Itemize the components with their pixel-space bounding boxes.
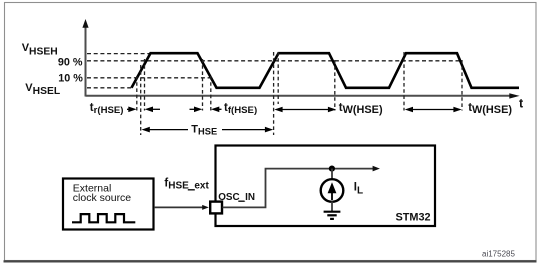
svg-text:90 %: 90 % xyxy=(58,57,83,69)
dashed marker rise2 90% (THSE right, tW left) xyxy=(273,52,275,135)
svg-text:ai175285: ai175285 xyxy=(482,249,515,258)
svg-text:tf(HSE): tf(HSE) xyxy=(224,102,257,116)
y-axis (voltage axis) xyxy=(82,19,88,97)
dashed level line VHSEH xyxy=(87,53,150,55)
dashed level line 10% xyxy=(87,77,212,79)
STM32 box xyxy=(216,146,436,227)
x-axis (time axis) xyxy=(86,93,520,98)
tW dimension arrow 2 xyxy=(405,107,462,113)
tr dimension arrows xyxy=(127,107,160,113)
THSE dimension arrow xyxy=(142,121,274,136)
dashed level line 90% xyxy=(87,60,461,62)
svg-text:OSC_IN: OSC_IN xyxy=(218,192,255,203)
square wave symbol xyxy=(72,214,135,222)
ground symbol xyxy=(324,212,341,219)
external clock source box xyxy=(63,179,154,230)
dashed marker rise1 mid (THSE left) xyxy=(140,65,142,135)
svg-text:tW(HSE): tW(HSE) xyxy=(339,102,383,116)
wire from clock source to OSC_IN with arrowhead xyxy=(154,205,209,210)
internal wire from OSC_IN up and right with arrowhead xyxy=(223,166,380,208)
dashed marker fall1 90% xyxy=(202,59,204,111)
wire junction to current source xyxy=(331,169,333,180)
svg-text:clock source: clock source xyxy=(73,192,132,204)
svg-text:fHSE_ext: fHSE_ext xyxy=(164,178,209,192)
dashed marker fall1 10% xyxy=(210,76,212,111)
dashed marker rise1 10% xyxy=(136,76,138,111)
dashed level line VHSEL xyxy=(87,87,133,89)
dashed marker fall3 90% xyxy=(461,60,463,111)
junction node dot xyxy=(329,166,335,172)
dashed marker fall2 90% xyxy=(334,60,336,111)
svg-text:tr(HSE): tr(HSE) xyxy=(90,102,124,116)
HSE clock waveform xyxy=(132,53,520,88)
tW dimension arrow 1 xyxy=(274,107,336,113)
dashed marker rise1 90% xyxy=(144,59,146,111)
svg-text:tW(HSE): tW(HSE) xyxy=(468,102,512,116)
wire current source to ground xyxy=(331,202,333,212)
dashed marker rise2 top xyxy=(277,52,279,104)
tf dimension arrows xyxy=(190,107,222,113)
svg-text:STM32: STM32 xyxy=(396,212,431,224)
dashed marker rise3 90% xyxy=(403,52,405,111)
OSC_IN pin square xyxy=(210,202,222,214)
current source IL xyxy=(321,179,344,202)
svg-text:10 %: 10 % xyxy=(58,72,83,84)
